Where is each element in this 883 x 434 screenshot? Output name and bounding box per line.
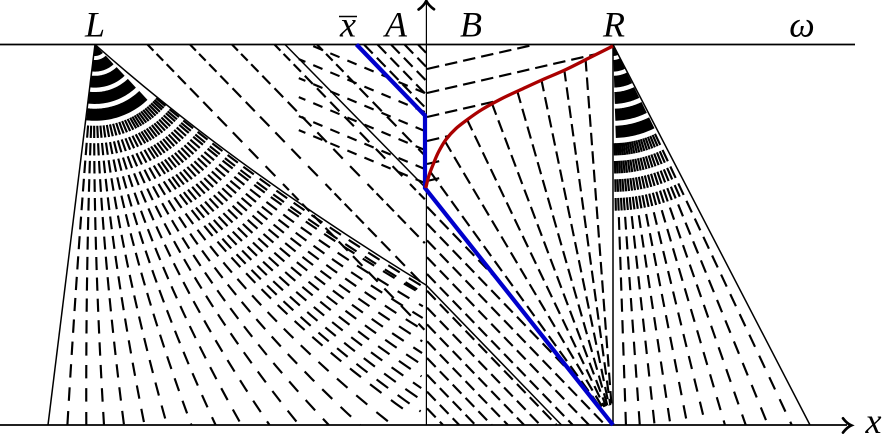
svg-text:R: R (602, 5, 625, 45)
svg-text:L: L (84, 5, 105, 45)
solid curved characteristic from L crossing the interface (95, 45, 562, 426)
fan of dashed characteristics converging to foot of R line (430, 59, 612, 409)
svg-text:ω: ω (789, 5, 814, 45)
rarefaction fan from L (dashed characteristics) (67, 45, 423, 426)
R fan right solid edge (613, 45, 810, 426)
top boundary line (0, 44, 855, 46)
rarefaction fan from R (dashed characteristics) (613, 45, 792, 426)
svg-text:A: A (383, 5, 408, 45)
parallel dashed characteristics left of the x-bar shock (148, 45, 425, 331)
red shock curve from kink to R (426, 46, 613, 188)
merged dash rings near R fan vertex (613, 50, 652, 132)
blue shock: from x-bar to interface, along interface, then transmitted (357, 45, 614, 426)
L fan left solid edge (48, 45, 95, 426)
svg-text:x: x (865, 401, 882, 434)
svg-text:x: x (339, 5, 356, 45)
svg-text:B: B (460, 5, 482, 45)
merged dash rings near L fan vertex (87, 49, 143, 115)
vertical solid line below R (612, 45, 614, 426)
vertical t axis with arrow (425, 2, 427, 426)
solid characteristic through point A hitting the kink (285, 45, 426, 189)
transmitted dashed characteristics between axis and blue shock (427, 190, 605, 425)
parallel dashed characteristics in wedge between blue shock and axis (364, 45, 426, 109)
x axis (bottom) with arrow (0, 424, 847, 426)
dashed characteristics in region B above red shock (427, 45, 597, 182)
